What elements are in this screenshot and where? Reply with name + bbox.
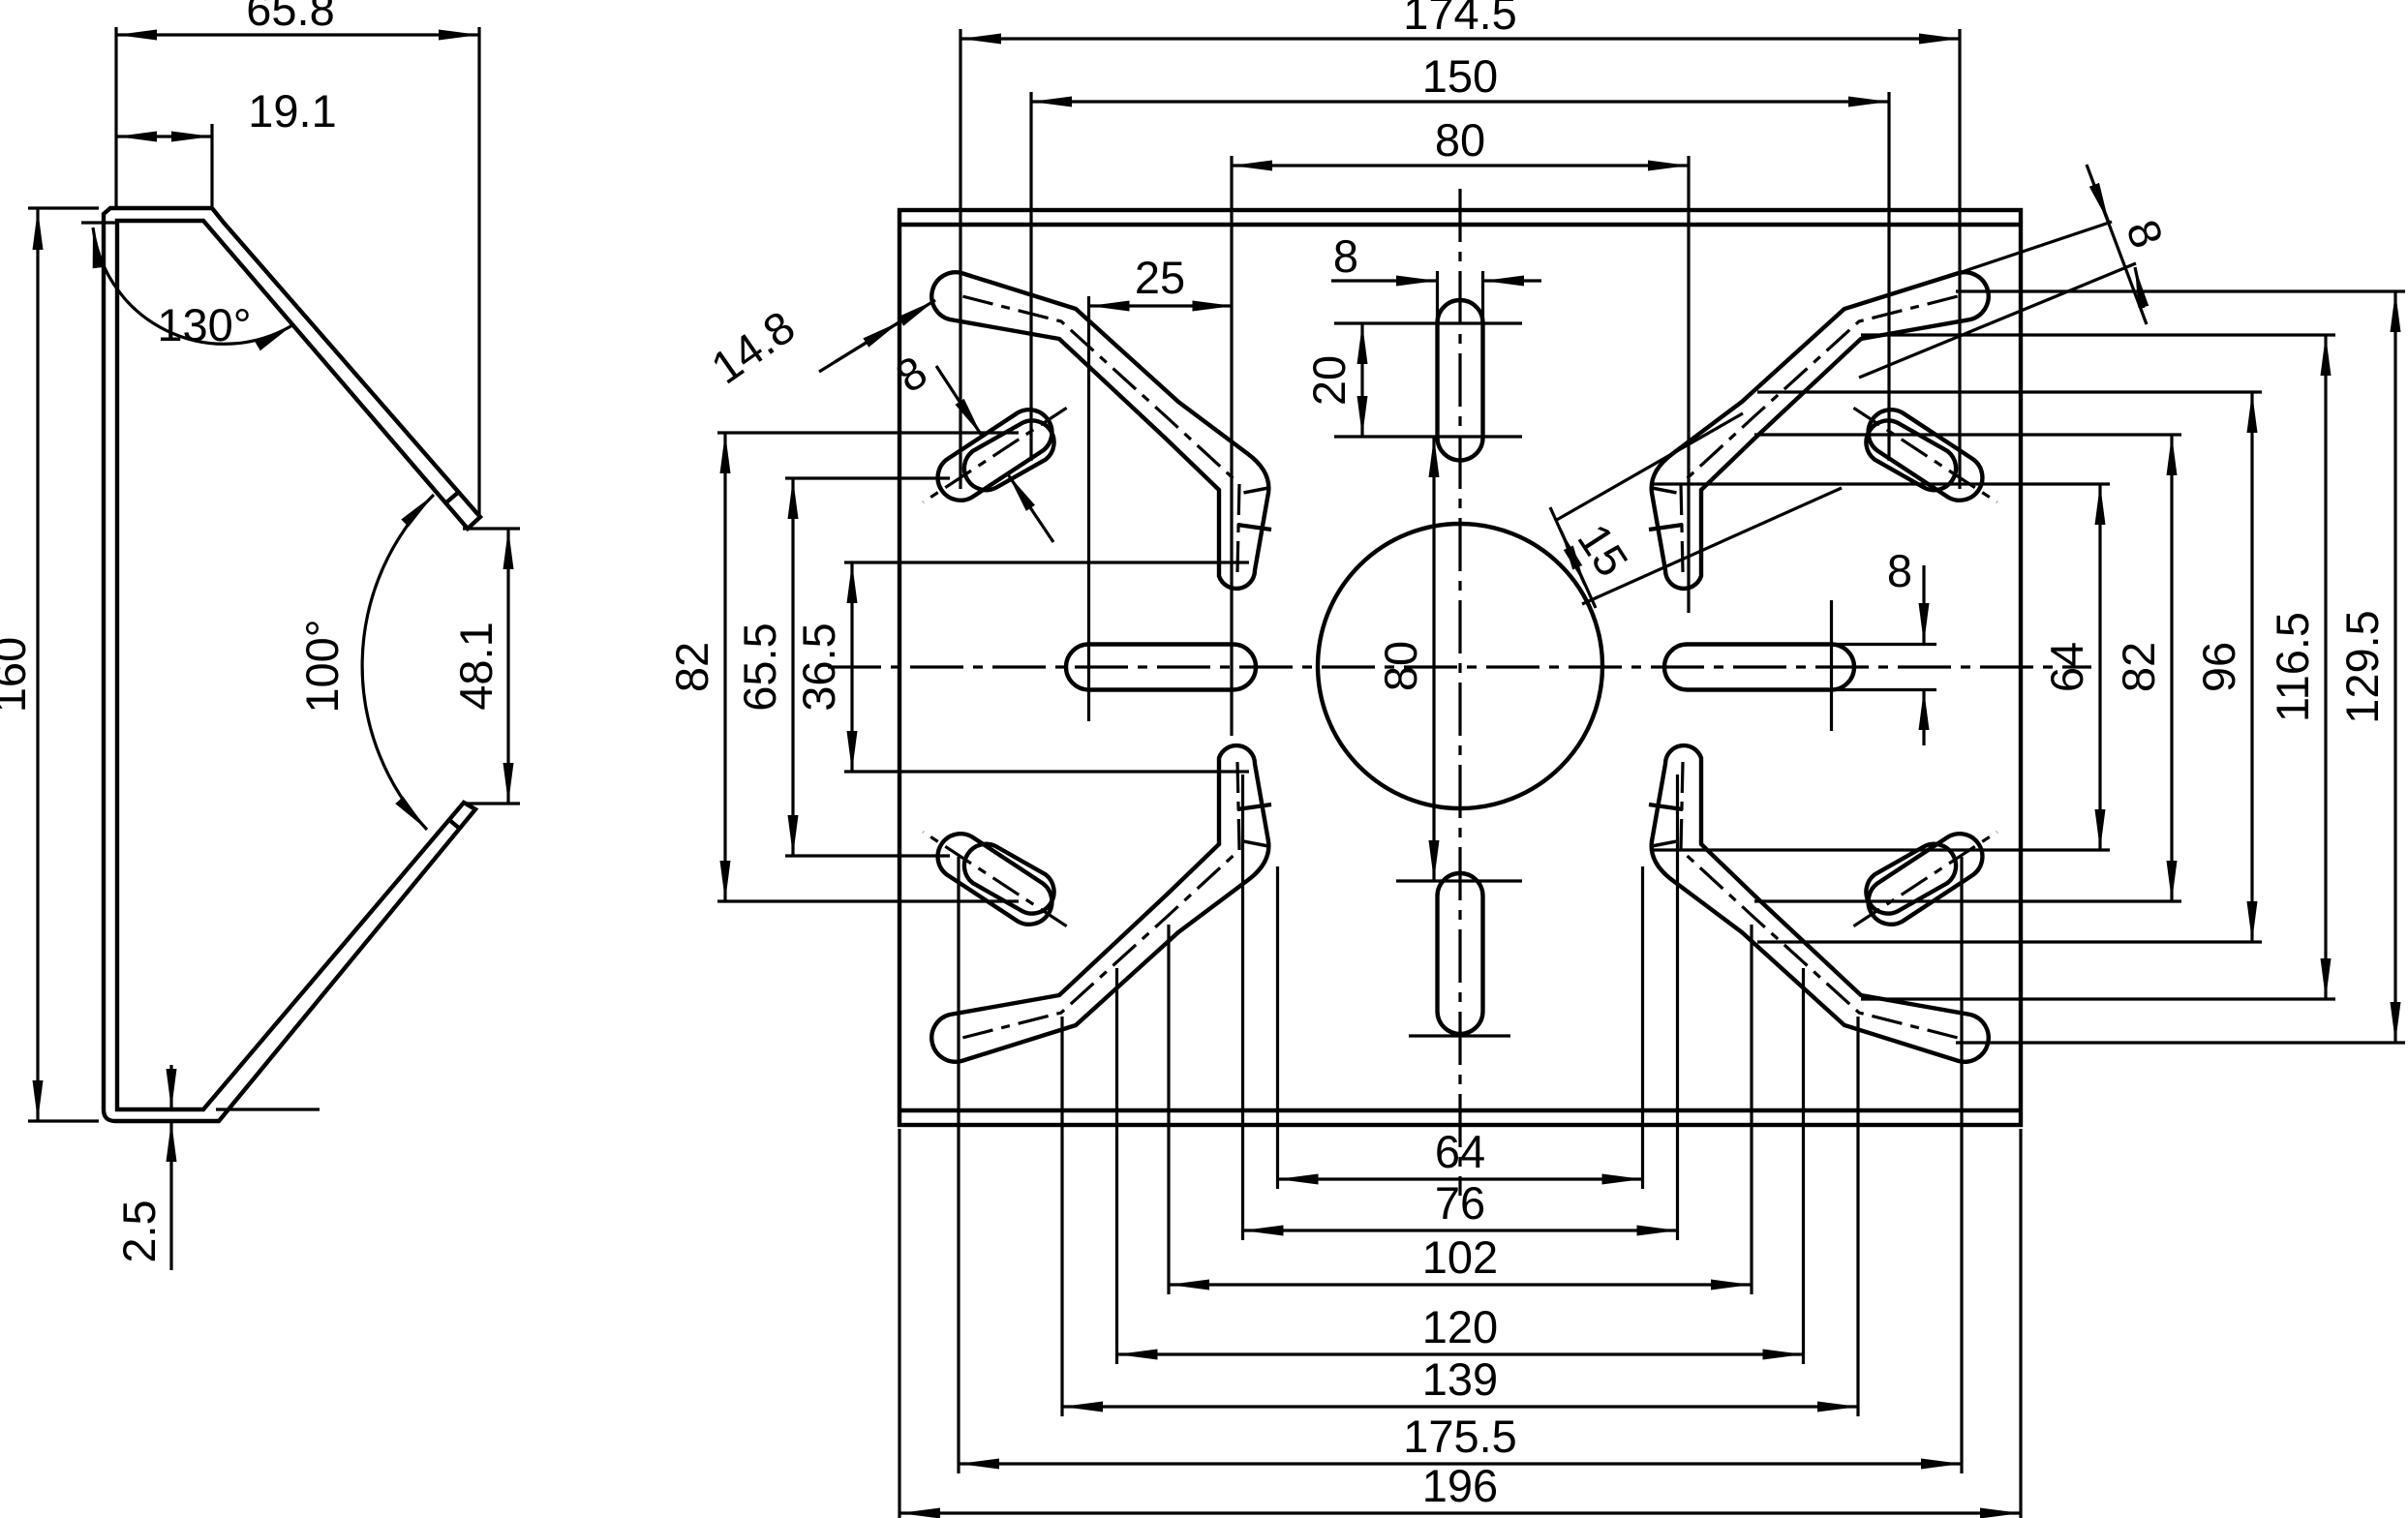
dimension 8 top slot <box>1331 279 1437 282</box>
top slot <box>1438 300 1483 460</box>
ext 82L bottom <box>717 899 1019 902</box>
ext 82L top <box>717 431 1019 434</box>
ext line 48.1 bottom <box>463 802 520 805</box>
ext 80 right <box>1687 156 1690 613</box>
svg-text:64: 64 <box>1435 1126 1485 1177</box>
svg-text:64: 64 <box>2041 642 2092 692</box>
ext line 65.8 left <box>114 27 117 206</box>
ext line 160 top <box>28 206 99 209</box>
dimension 14.8 upper left <box>835 300 935 362</box>
plate bottom fold line <box>899 1108 2021 1112</box>
dimension 80 vertical <box>1432 437 1435 881</box>
dimension 129.5 <box>2393 291 2396 1043</box>
svg-text:82: 82 <box>666 642 717 692</box>
ext 150 right <box>1887 92 1890 461</box>
dimension 116.5 <box>2324 335 2327 999</box>
dimension 36.5 <box>850 562 853 772</box>
plate top fold line <box>899 223 2021 227</box>
dimension 19.1 <box>116 135 212 137</box>
ext line 48.1 top <box>463 527 520 530</box>
right slot <box>1664 645 1854 690</box>
dimension 20 <box>1360 323 1363 437</box>
ext line 19.1 right <box>210 124 213 206</box>
dimension 15 <box>1561 531 1596 608</box>
svg-text:80: 80 <box>1435 114 1485 166</box>
ext 8 slot left <box>1436 271 1439 323</box>
svg-text:139: 139 <box>1422 1353 1498 1405</box>
ext line 65.8 right <box>477 27 480 517</box>
ext 36.5 bottom <box>844 770 1249 773</box>
ext 15 b <box>1582 488 1842 604</box>
dimension 82 right <box>2170 435 2173 901</box>
ext 150 left <box>1029 92 1032 461</box>
side view sheet profile <box>104 208 480 1121</box>
svg-text:120: 120 <box>1422 1301 1498 1352</box>
ext 15 a <box>1555 413 1743 521</box>
ext 8R top <box>1830 643 1936 646</box>
dimension 174.5 <box>960 37 1960 40</box>
claw upper left <box>923 272 1271 589</box>
svg-text:196: 196 <box>1422 1460 1498 1511</box>
ext 25 left <box>1087 296 1090 721</box>
svg-text:160: 160 <box>0 637 35 713</box>
dimension 139 <box>1062 1405 1858 1408</box>
svg-text:19.1: 19.1 <box>248 85 336 137</box>
dimension 64 right <box>2098 484 2101 850</box>
dimension 120 <box>1117 1352 1804 1355</box>
dimension 82 left <box>723 433 726 901</box>
ext 65.5 top <box>785 476 950 479</box>
plate outline <box>899 210 2021 1125</box>
svg-text:76: 76 <box>1435 1177 1485 1229</box>
ext 20 top <box>1334 321 1522 324</box>
svg-text:80: 80 <box>1375 641 1426 691</box>
dimension 150 <box>1031 100 1889 103</box>
svg-text:82: 82 <box>2113 642 2164 692</box>
svg-text:36.5: 36.5 <box>793 622 844 711</box>
svg-text:175.5: 175.5 <box>1403 1411 1517 1462</box>
ext 8 UR a <box>1959 222 2112 273</box>
claw lower left <box>923 745 1271 1062</box>
svg-text:130°: 130° <box>157 299 251 350</box>
dimension 8 upper-right claw width <box>2087 165 2147 324</box>
claw upper right <box>1649 272 1997 589</box>
svg-text:8: 8 <box>1333 230 1358 282</box>
ext 174.5 right <box>1958 29 1961 489</box>
bottom slot <box>1438 873 1483 1034</box>
flange end tick lower <box>448 819 461 830</box>
svg-text:65.8: 65.8 <box>246 0 334 35</box>
dimension 8 upper-left corner slot <box>936 366 982 436</box>
svg-text:100°: 100° <box>296 619 348 713</box>
ext 8 slot right <box>1481 271 1484 323</box>
svg-text:129.5: 129.5 <box>2336 610 2388 724</box>
angle dimension 130 <box>93 228 292 344</box>
ext bottom slot lower <box>1409 1034 1510 1037</box>
svg-text:174.5: 174.5 <box>1403 0 1517 39</box>
svg-text:20: 20 <box>1303 355 1355 406</box>
dimension 175.5 <box>959 1462 1962 1465</box>
dimension 25 <box>1089 304 1234 307</box>
claw lower right <box>1649 745 1997 1062</box>
svg-text:8: 8 <box>1887 545 1912 596</box>
dimension 76 <box>1243 1229 1678 1231</box>
ext 80v bottom <box>1396 879 1522 882</box>
ext line foot top <box>216 1108 320 1110</box>
svg-text:96: 96 <box>2193 642 2244 692</box>
dimension 102 <box>1169 1283 1752 1286</box>
svg-text:116.5: 116.5 <box>2267 612 2318 722</box>
left slot <box>1066 645 1256 690</box>
ext 8 UR b <box>1859 263 2136 378</box>
svg-text:102: 102 <box>1422 1231 1498 1283</box>
flange end tick upper <box>446 492 459 502</box>
svg-text:48.1: 48.1 <box>450 622 502 710</box>
ext 65.5 bottom <box>785 854 950 857</box>
dimension 64 bottom <box>1278 1177 1643 1180</box>
vertical center line <box>1458 189 1461 1196</box>
dimension 96 <box>2250 392 2253 942</box>
angle dimension 100 <box>362 495 434 830</box>
svg-text:25: 25 <box>1135 252 1185 303</box>
ext right slot tangent <box>1830 600 1833 731</box>
ext 174.5 left <box>959 29 961 489</box>
dimension 80 top <box>1232 164 1689 167</box>
svg-text:2.5: 2.5 <box>113 1199 165 1262</box>
dimension 196 <box>899 1511 2021 1514</box>
central hole circle <box>1318 524 1602 808</box>
svg-text:150: 150 <box>1422 50 1498 102</box>
ext line 160 bottom <box>28 1119 99 1122</box>
ext 36.5 top <box>844 561 1249 563</box>
dimension 65.5 <box>791 478 794 856</box>
ext 80 left <box>1230 156 1233 736</box>
ext 8R bottom <box>1830 688 1936 691</box>
ext 20 bottom <box>1334 435 1522 438</box>
dimension 8 right slot <box>1922 565 1925 644</box>
svg-text:65.5: 65.5 <box>734 622 785 711</box>
dimension 2.5 <box>169 1065 172 1109</box>
dimension 48.1 <box>506 529 509 804</box>
horizontal center line <box>828 665 2091 668</box>
dimension 160 <box>36 209 39 1121</box>
dimension 65.8 <box>116 33 479 36</box>
